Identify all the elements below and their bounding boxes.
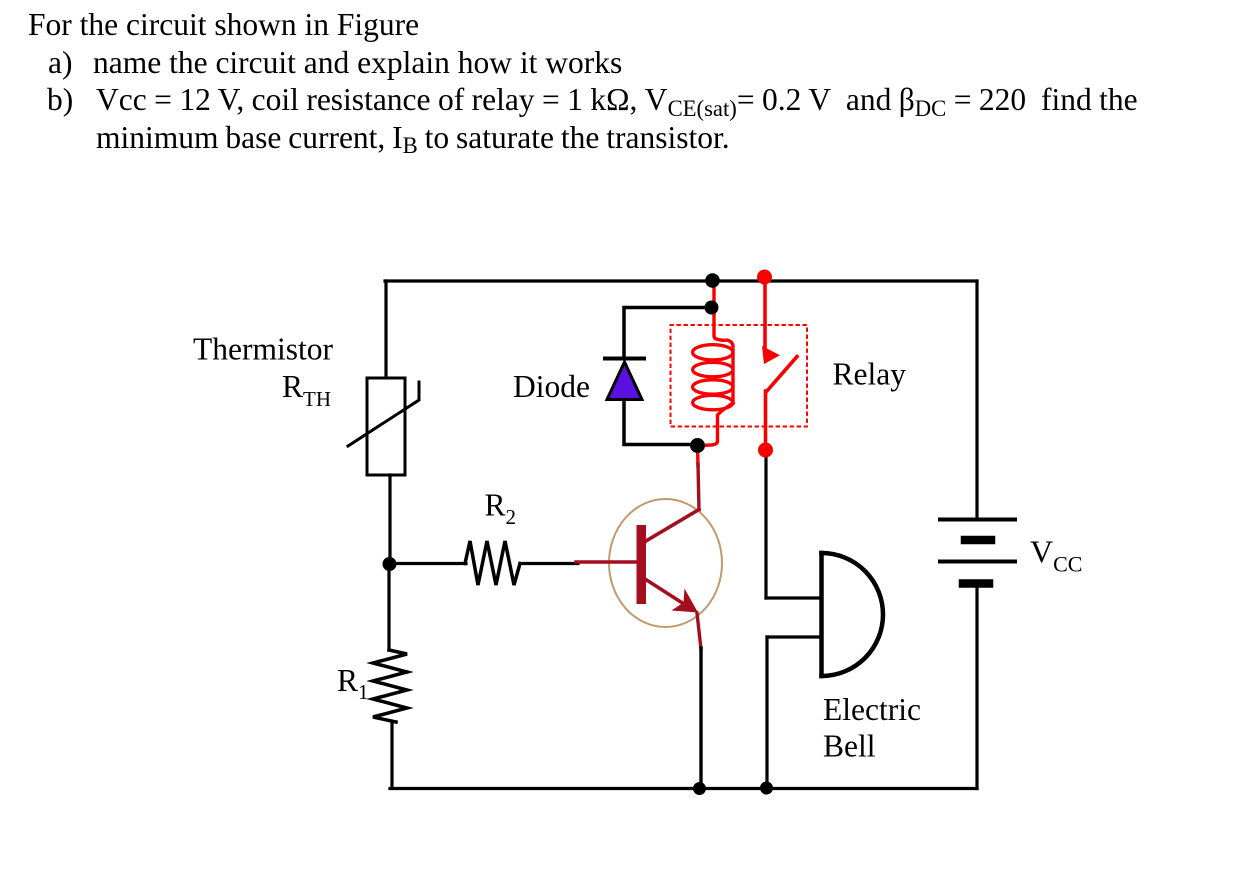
node top rail coil junction — [705, 273, 720, 288]
relay dashed box — [671, 325, 808, 427]
wire emitter dark — [697, 613, 701, 649]
wire right rail lower — [975, 584, 978, 789]
wire R2 to base — [520, 562, 578, 565]
node emitter bottom junction — [693, 782, 706, 795]
relay switch arrowhead — [762, 346, 780, 364]
relay switch fixed lead — [763, 279, 767, 347]
diode D1 triangle — [607, 362, 642, 400]
svg-text:Diode: Diode — [513, 369, 590, 404]
electric bell bar — [819, 553, 824, 676]
wire collector dark — [698, 464, 699, 510]
wire bell top prong — [766, 596, 820, 599]
electric bell dome — [822, 553, 884, 676]
wire diode branch top — [624, 308, 711, 359]
battery VCC plate short thick 1 — [965, 536, 991, 545]
svg-text:Relay: Relay — [833, 357, 907, 392]
transistor Q1 collector lead — [645, 510, 699, 542]
problem statement text — [28, 9, 419, 41]
wire top rail — [385, 279, 977, 282]
relay coil back — [731, 350, 734, 404]
node diode junction — [705, 301, 719, 315]
relay coil loop 3 — [693, 380, 733, 394]
thermistor RTH diagonal — [348, 382, 419, 446]
relay coil top lead — [714, 284, 733, 346]
wire right rail upper — [975, 281, 978, 519]
wire node A to R1 — [387, 564, 390, 650]
node A dot (base branch) — [383, 557, 397, 571]
wire base branch node A to R2 — [389, 562, 466, 565]
wire bell branch upper — [764, 452, 767, 598]
relay coil loop 2 — [693, 362, 733, 376]
wire thermistor to node A — [388, 475, 391, 564]
resistor R1 zigzag — [373, 650, 407, 722]
battery VCC plate long bottom — [940, 560, 1015, 564]
node bell bottom junction — [760, 782, 773, 795]
relay coil bottom lead — [699, 403, 733, 446]
transistor Q1 circle — [609, 499, 722, 627]
diode D1 cathode bar — [605, 357, 644, 361]
transistor Q1 base bar — [637, 525, 647, 604]
node switch top (red) — [757, 270, 772, 285]
svg-text:RTH: RTH — [282, 369, 331, 411]
svg-text:R2: R2 — [485, 488, 517, 530]
thermistor RTH body — [367, 378, 405, 475]
wire bottom rail — [390, 787, 977, 790]
transistor Q1 base lead — [576, 560, 637, 563]
wire bell branch lower — [765, 637, 768, 789]
relay coil loop 1 — [693, 345, 733, 360]
transistor Q1 emitter lead — [645, 579, 684, 604]
wire bell bottom prong — [767, 635, 820, 638]
battery VCC plate short thick 2 — [963, 579, 989, 588]
node switch bottom (red) — [758, 443, 773, 458]
wire diode branch bottom — [624, 400, 697, 445]
resistor R2 zigzag — [465, 541, 520, 585]
svg-text:Electric: Electric — [823, 692, 921, 727]
transistor Q1 emitter arrowhead — [672, 589, 699, 613]
wire collector red upper — [696, 446, 700, 466]
wire left drop to thermistor — [384, 281, 387, 380]
node coil bottom junction — [690, 438, 705, 453]
svg-text:Bell: Bell — [823, 729, 876, 764]
battery VCC plate long top — [940, 518, 1015, 522]
svg-text:R1: R1 — [337, 663, 369, 704]
svg-text:VCC: VCC — [1030, 534, 1082, 577]
wire emitter to bottom rail — [699, 648, 702, 789]
relay switch blade — [767, 357, 798, 392]
relay switch lower lead — [764, 391, 768, 450]
wire R1 to bottom rail — [390, 722, 393, 788]
relay coil loop 4 — [693, 395, 733, 409]
svg-text:Thermistor: Thermistor — [193, 332, 333, 367]
